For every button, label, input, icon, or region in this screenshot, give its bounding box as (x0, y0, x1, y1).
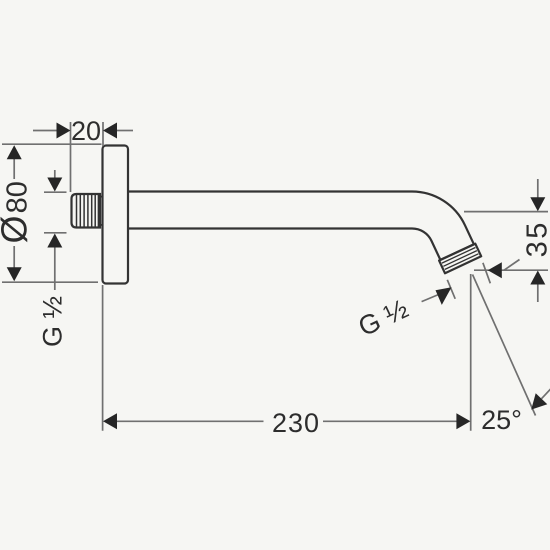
svg-text:G ½: G ½ (37, 296, 67, 347)
25 degree angle annotation (473, 275, 536, 416)
wall flange (escutcheon, side view) (103, 146, 129, 284)
svg-text:20: 20 (71, 116, 101, 146)
nipple neck step (100, 197, 103, 225)
dimension 20 (nipple protrusion) (33, 122, 133, 192)
threaded outlet collar G1/2 (439, 244, 481, 274)
dimension 230 (arm length) (103, 274, 471, 431)
nipple thread hatch (77, 194, 99, 228)
svg-text:230: 230 (272, 408, 320, 438)
dimension 35 (outlet drop) (464, 179, 548, 302)
svg-text:35: 35 (522, 220, 550, 257)
collar thread hatch (442, 248, 479, 270)
threaded wall nipple G1/2 (72, 194, 101, 228)
svg-text:25°: 25° (481, 405, 522, 435)
dimension G1/2 wall thread (arrows + ticks) (44, 170, 67, 290)
svg-text:Ø80: Ø80 (0, 181, 35, 243)
dimension Ø80 (flange diameter) (2, 144, 102, 282)
shower arm tube (128, 192, 474, 245)
tube end face (440, 244, 474, 260)
dimension G1/2 outlet thread (leader arrows + ticks) (422, 260, 520, 302)
